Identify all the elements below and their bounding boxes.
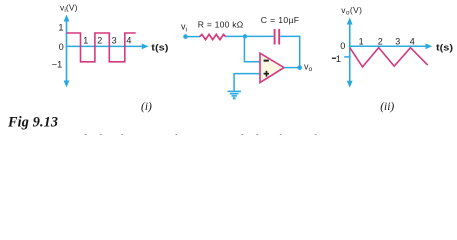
- svg-text:3: 3: [395, 36, 400, 46]
- svg-text:vo(V): vo(V): [341, 5, 362, 17]
- caption Fig 9.13: [7, 115, 58, 131]
- right graph time label 3: [395, 36, 400, 46]
- left graph t(s) label: [151, 42, 168, 52]
- node vo output: [297, 65, 302, 70]
- wire junction down to inverting input: [244, 36, 260, 61]
- node vi input: [183, 34, 188, 39]
- label vo: [304, 61, 313, 73]
- left graph y tick label 1: [58, 22, 63, 32]
- right graph x-axis: [349, 43, 432, 49]
- right graph time label 1: [359, 36, 364, 46]
- svg-text:4: 4: [410, 36, 415, 46]
- sub-label (i): [141, 101, 152, 113]
- right graph y tick label 0: [340, 41, 345, 51]
- left graph time label 4: [126, 35, 131, 45]
- resistor value label R = 100 kOhm: [198, 20, 244, 30]
- svg-text:C = 10µF: C = 10µF: [261, 15, 299, 25]
- cropped body text line: [56, 131, 338, 145]
- svg-text:Fig 9.13: Fig 9.13: [7, 115, 58, 131]
- wire input node to resistor: [186, 36, 201, 38]
- svg-text:is applied to the circuit, the: is applied to the circuit, the output is…: [56, 131, 338, 135]
- wire resistor to junction and to capacitor: [226, 35, 274, 37]
- svg-text:(ii): (ii): [380, 101, 394, 113]
- wire op-amp output: [284, 67, 300, 69]
- svg-text:1: 1: [336, 54, 341, 64]
- right graph triangle wave vo: [350, 48, 428, 67]
- right graph y-axis: [347, 18, 353, 88]
- label vi: [181, 21, 188, 33]
- svg-text:0: 0: [59, 42, 64, 52]
- svg-text:vo: vo: [304, 61, 313, 73]
- right graph t(s) label: [436, 42, 453, 52]
- right graph axis label vo(V): [341, 5, 362, 17]
- right graph y tick label -1: [332, 54, 341, 64]
- left graph y tick label -1: [52, 60, 62, 70]
- svg-text:3: 3: [112, 35, 117, 45]
- sub-label (ii): [380, 101, 394, 113]
- capacitor C = 10uF plates: [275, 29, 280, 45]
- wire ground to non-inverting input: [234, 74, 260, 91]
- svg-text:−1: −1: [52, 60, 62, 70]
- svg-text:2: 2: [97, 35, 102, 45]
- op-amp non-inverting input plus sign: [264, 71, 269, 77]
- svg-text:t(s): t(s): [436, 42, 453, 52]
- svg-text:vi: vi: [181, 21, 188, 33]
- op-amp inverting input minus sign: [264, 60, 269, 62]
- left graph time label 1: [83, 35, 88, 45]
- svg-text:(i): (i): [141, 101, 152, 113]
- svg-text:1: 1: [359, 36, 364, 46]
- wire capacitor to feedback corner and down to output: [280, 36, 299, 67]
- resistor R = 100 k ohm: [200, 34, 226, 39]
- right graph time label 2: [378, 36, 383, 46]
- capacitor value label C = 10uF: [261, 15, 299, 25]
- svg-text:1: 1: [83, 35, 88, 45]
- svg-text:t(s): t(s): [151, 42, 168, 52]
- svg-text:2: 2: [378, 36, 383, 46]
- svg-text:1: 1: [58, 22, 63, 32]
- left graph y tick label 0: [59, 42, 64, 52]
- left graph axis label vi(V): [60, 2, 78, 14]
- right graph time label 4: [410, 36, 415, 46]
- right graph -1 tick mark: [344, 56, 350, 58]
- left graph time label 3: [112, 35, 117, 45]
- left graph time label 2: [97, 35, 102, 45]
- op-amp U1 triangle: [260, 53, 284, 82]
- svg-text:R = 100 kΩ: R = 100 kΩ: [198, 20, 244, 30]
- svg-text:4: 4: [126, 35, 131, 45]
- left graph square wave vi: [67, 33, 136, 62]
- left graph y-axis: [64, 15, 70, 88]
- svg-text:vi(V): vi(V): [60, 2, 78, 14]
- junction node: [243, 34, 247, 38]
- ground symbol: [228, 91, 241, 98]
- svg-text:0: 0: [340, 41, 345, 51]
- left graph x-axis: [66, 44, 149, 50]
